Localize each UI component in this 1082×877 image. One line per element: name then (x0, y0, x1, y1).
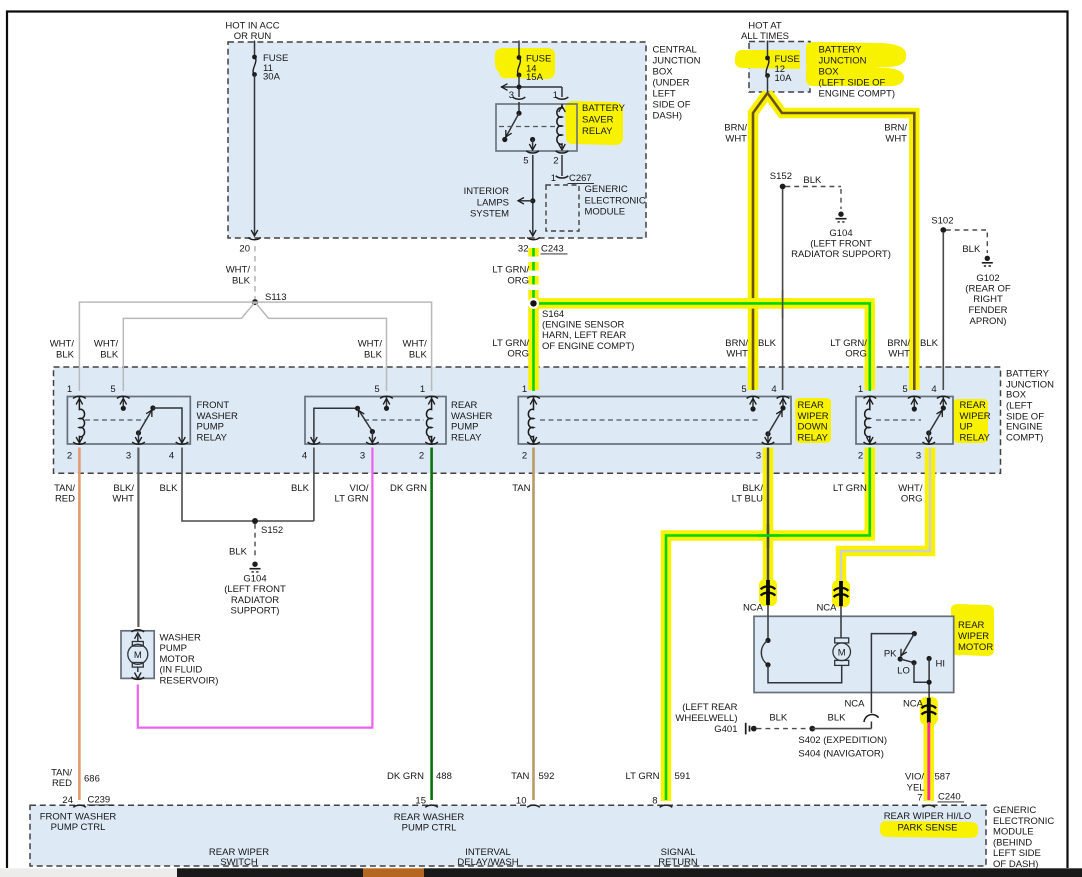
svg-text:HI: HI (936, 659, 946, 670)
svg-text:BLK: BLK (229, 547, 248, 558)
svg-text:RELAY: RELAY (451, 432, 482, 443)
fuse F11 30A (252, 55, 257, 77)
svg-text:S152: S152 (770, 171, 792, 182)
svg-text:(IN FLUID: (IN FLUID (160, 665, 203, 676)
svg-text:(ENGINE SENSOR: (ENGINE SENSOR (542, 320, 624, 331)
svg-text:5: 5 (110, 384, 115, 395)
highlighter blob over REAR WIPER MOTOR label (951, 604, 994, 656)
svg-text:TAN: TAN (512, 483, 530, 494)
svg-text:BATTERY: BATTERY (1006, 369, 1050, 380)
svg-text:REAR WASHER: REAR WASHER (394, 812, 465, 823)
svg-text:MODULE: MODULE (993, 827, 1034, 838)
svg-text:(REAR OF: (REAR OF (965, 284, 1011, 295)
wire: fuse 12 lead to split (767, 76, 769, 94)
svg-text:RADIATOR SUPPORT): RADIATOR SUPPORT) (791, 249, 891, 260)
svg-text:BLK/: BLK/ (742, 483, 763, 494)
svg-text:C239: C239 (88, 795, 111, 806)
svg-text:(LEFT REAR: (LEFT REAR (682, 702, 737, 713)
svg-text:OF ENGINE COMPT): OF ENGINE COMPT) (542, 341, 634, 352)
svg-text:RETURN: RETURN (658, 857, 698, 868)
svg-text:NCA: NCA (743, 603, 764, 614)
svg-text:DASH): DASH) (653, 111, 683, 122)
svg-text:WHT/: WHT/ (403, 338, 428, 349)
BRN/WHT wire right branch to up relay pin 5 (768, 93, 915, 390)
generic electronic module box (dashed, blue) (30, 805, 986, 866)
bottom taskbar strip black right (424, 868, 1082, 877)
svg-text:PK: PK (884, 649, 897, 660)
svg-text:WHT: WHT (725, 134, 747, 145)
svg-text:5: 5 (523, 156, 528, 167)
svg-text:(LEFT SIDE OF: (LEFT SIDE OF (819, 78, 886, 89)
svg-text:BLK: BLK (409, 350, 428, 361)
splice S113 (252, 299, 258, 305)
svg-text:PUMP CTRL: PUMP CTRL (51, 822, 106, 833)
yellow highlight band on LT GRN wire (up relay pin 2 to GEM pin 8) (666, 448, 870, 802)
svg-text:FRONT: FRONT (197, 400, 230, 411)
washer pump motor top cup and arrows (132, 630, 145, 680)
svg-text:G401: G401 (714, 724, 737, 735)
svg-text:SIDE OF: SIDE OF (653, 100, 691, 111)
LT GRN/ORG wire S164 down to down relay pin 1 (532, 299, 535, 391)
BLK dashed wire S152 to ground G104 (786, 187, 842, 210)
BRN/WHT wire left branch to down relay pin 5 (753, 93, 768, 390)
label WASHER PUMP MOTOR (IN FLUID RESERVOIR) (160, 632, 219, 686)
battery junction box relay row (dashed, blue) (54, 367, 1001, 473)
rear washer pump relay switch and pin 4 leg (311, 406, 376, 443)
bottom circuit labels TAN/RED 686 pin 24 C239 (51, 768, 113, 806)
rear wiper motor symbol M (833, 616, 851, 665)
wire: HOT AT ALL TIMES feed into fuse 14 (518, 41, 520, 58)
bottom circuit labels DK GRN 488 pin 15 (387, 771, 452, 806)
svg-text:592: 592 (539, 771, 555, 782)
svg-text:HOT AT: HOT AT (748, 21, 782, 32)
svg-text:FRONT WASHER: FRONT WASHER (40, 812, 117, 823)
rear wiper down relay connector cups (527, 396, 789, 444)
label S164 (ENGINE SENSOR HARN, LEFT REAR OF ENGINE COMPT) (542, 309, 634, 352)
svg-text:INTERVAL: INTERVAL (465, 847, 511, 858)
svg-text:WHEELWELL): WHEELWELL) (675, 713, 737, 724)
rear wiper down relay pin labels (522, 384, 777, 462)
label REAR WIPER UP RELAY (960, 400, 991, 443)
yellow highlight band on BRN/WHT wire right branch (fuse12 to rear wiper up relay pin 5) (768, 93, 915, 390)
BSR coil (pins 1-2) (557, 104, 562, 148)
rear washer pump relay box (305, 397, 446, 445)
highlighter blob over FUSE 12 / BATTERY JUNCTION BOX label (735, 50, 800, 69)
svg-text:3: 3 (916, 451, 921, 462)
connector cup BSR pin 2 (556, 151, 569, 153)
svg-text:LT GRN/: LT GRN/ (830, 338, 867, 349)
svg-text:GENERIC: GENERIC (993, 805, 1036, 816)
svg-text:24: 24 (62, 795, 73, 806)
rear wiper motor internals: PK LO HI selector (871, 631, 931, 693)
svg-text:JUNCTION: JUNCTION (819, 56, 867, 67)
svg-text:INTERIOR: INTERIOR (464, 186, 510, 197)
svg-text:LEFT: LEFT (653, 88, 676, 99)
fuse F14 15A (517, 55, 522, 77)
svg-text:WIPER: WIPER (958, 631, 989, 642)
front washer pump relay switch (135, 405, 185, 443)
svg-text:CENTRAL: CENTRAL (653, 44, 697, 55)
svg-text:VIO/: VIO/ (905, 772, 924, 783)
svg-text:WASHER: WASHER (160, 632, 201, 643)
BLK wire S152 to down relay pin 4 (782, 189, 784, 390)
svg-text:LT GRN/: LT GRN/ (492, 338, 529, 349)
svg-text:PUMP CTRL: PUMP CTRL (402, 823, 457, 834)
BLK/WHT wire front relay pin 3 to washer pump motor (137, 448, 139, 628)
svg-text:C243: C243 (541, 244, 564, 255)
front washer pump relay box (67, 397, 190, 445)
svg-text:488: 488 (436, 771, 452, 782)
svg-text:2: 2 (419, 451, 424, 462)
svg-text:591: 591 (675, 771, 691, 782)
svg-text:S102: S102 (931, 216, 953, 227)
label BATTERY SAVER RELAY (582, 103, 626, 137)
svg-text:RELAY: RELAY (960, 432, 991, 443)
svg-text:MODULE: MODULE (585, 207, 626, 218)
svg-text:LO: LO (897, 666, 910, 677)
label GENERIC ELECTRONIC MODULE (upper) (585, 184, 646, 218)
right NCA inline connector (922, 693, 937, 724)
svg-text:WHT: WHT (112, 494, 134, 505)
svg-text:S152: S152 (261, 525, 283, 536)
rear wiper down relay switch (765, 409, 785, 443)
label REAR WIPER DOWN RELAY (798, 400, 829, 443)
wire tap to interior lamps system (518, 200, 533, 202)
label GENERIC ELECTRONIC MODULE (BEHIND LEFT SIDE OF DASH) (993, 805, 1054, 870)
VIO/YEL wire circuit 587 to GEM pin 7 (927, 722, 930, 800)
svg-text:8: 8 (652, 796, 657, 807)
svg-text:BOX: BOX (653, 66, 674, 77)
svg-text:ENGINE: ENGINE (1006, 422, 1042, 433)
yellow highlight band on VIO/YEL wire (motor to GEM pin 7) (924, 701, 935, 801)
BLK wire S402 to park sense connector (812, 728, 871, 730)
label INTERIOR LAMPS SYSTEM (464, 186, 510, 220)
front washer pump relay dashed centerline (85, 419, 146, 421)
generic electronic module small box (inside CJB, dashed) (546, 185, 579, 231)
BLK dashed wire S102 to ground G102 (946, 230, 987, 253)
svg-text:2: 2 (858, 451, 863, 462)
svg-text:BRN/: BRN/ (724, 123, 747, 134)
svg-text:M: M (838, 647, 846, 658)
svg-text:S113: S113 (265, 292, 286, 303)
BLK wire S102 to up relay pin 4 (942, 233, 944, 390)
middle NCA inline connector (834, 581, 849, 616)
battery saver relay pin labels 3 1 5 2 (509, 90, 559, 167)
svg-text:4: 4 (302, 451, 307, 462)
svg-text:SIGNAL: SIGNAL (661, 847, 696, 858)
yellow highlight band on LT GRN/ORG wire (S164 to relay pins 1) (529, 299, 875, 390)
highlighter blob over REAR WIPER DOWN RELAY label (795, 398, 831, 443)
svg-text:15: 15 (415, 796, 426, 807)
highlighter blob over REAR WIPER UP RELAY label (953, 399, 988, 443)
svg-text:BATTERY: BATTERY (819, 45, 863, 56)
highlighter blob over FUSE 14 label (495, 48, 555, 79)
WHT/BLK wire S113 to rear washer relay pin 1 (255, 302, 432, 391)
LT GRN/ORG wire S164 across to up relay pin 1 (534, 303, 870, 391)
BLK/LT BLU wire down relay pin 3 to rear wiper motor NCA (767, 448, 769, 582)
svg-text:FENDER: FENDER (968, 305, 1007, 316)
bottom circuit labels TAN 592 pin 10 (511, 771, 554, 806)
svg-text:LEFT SIDE: LEFT SIDE (993, 848, 1041, 859)
svg-text:4: 4 (169, 451, 174, 462)
svg-text:BLK: BLK (364, 350, 383, 361)
svg-text:NCA: NCA (903, 698, 924, 709)
svg-text:DOWN: DOWN (798, 422, 828, 433)
svg-text:BOX: BOX (1006, 390, 1027, 401)
label G104 (LEFT FRONT RADIATOR SUPPORT) lower (224, 574, 286, 617)
DK GRN wire circuit 488 rear washer relay pin 2 to GEM pin 15 (430, 448, 433, 801)
WHT/BLK dashed wire CJB pin 20 to splice S113 (254, 246, 256, 299)
label G104 (LEFT FRONT RADIATOR SUPPORT) upper (791, 228, 891, 260)
svg-text:ENGINE COMPT): ENGINE COMPT) (819, 89, 896, 100)
yellow highlight blob on right NCA inline connector (920, 697, 938, 725)
rear wiper up relay pin 4 stub (940, 397, 947, 411)
GEM pin function labels row 1 (40, 811, 972, 833)
svg-text:(LEFT FRONT: (LEFT FRONT (224, 584, 286, 595)
svg-text:ELECTRONIC: ELECTRONIC (585, 195, 646, 206)
svg-text:BLK: BLK (232, 276, 251, 287)
svg-text:1: 1 (551, 173, 556, 184)
svg-text:15A: 15A (526, 72, 544, 83)
svg-text:NCA: NCA (844, 698, 865, 709)
svg-text:APRON): APRON) (970, 316, 1007, 327)
svg-text:ORG: ORG (845, 349, 867, 360)
svg-text:S164: S164 (542, 309, 564, 320)
BSR switch fixed contact to pin 5 (530, 137, 535, 142)
svg-text:30A: 30A (263, 72, 281, 83)
svg-text:COMPT): COMPT) (1006, 433, 1043, 444)
svg-text:NCA: NCA (816, 603, 837, 614)
svg-text:OR RUN: OR RUN (234, 31, 272, 42)
svg-text:TAN/: TAN/ (51, 768, 72, 779)
rear wiper down relay internals: coil pins 1-2 (528, 397, 536, 445)
GEM pin function labels row 2 (209, 847, 698, 868)
bottom circuit labels VIO/YEL 587 pin 7 C240 (905, 772, 964, 804)
svg-text:7: 7 (917, 793, 922, 804)
TAN wire circuit 592 down relay pin 2 to GEM pin 10 (532, 448, 535, 801)
svg-text:DK GRN: DK GRN (387, 771, 424, 782)
wire crossing patch: BLK wire over green horizontal at x782.6 (774, 298, 792, 309)
svg-text:S404 (NAVIGATOR): S404 (NAVIGATOR) (798, 748, 884, 759)
rear wiper up relay pin labels (858, 384, 937, 462)
svg-text:LT GRN/: LT GRN/ (492, 265, 529, 276)
svg-text:RELAY: RELAY (582, 126, 613, 137)
wire crossing patch: BLK/LT BLU core through green band at y535.5 (767, 524, 769, 548)
svg-text:WIPER: WIPER (798, 411, 829, 422)
rear washer pump relay pin 5 stub (383, 397, 390, 411)
svg-text:REAR: REAR (958, 620, 985, 631)
front washer pump relay internals: coil pins 1-2 (76, 397, 84, 445)
svg-text:BLK: BLK (920, 338, 939, 349)
splice S152 (lower) (252, 518, 258, 524)
svg-text:WHT: WHT (726, 349, 748, 360)
svg-text:LT GRN: LT GRN (626, 771, 660, 782)
svg-text:RADIATOR: RADIATOR (231, 595, 279, 606)
svg-text:2: 2 (553, 156, 558, 167)
svg-text:ORG: ORG (507, 276, 529, 287)
svg-text:32: 32 (518, 244, 529, 255)
fuse F12 10A (765, 56, 770, 78)
svg-text:HOT IN ACC: HOT IN ACC (225, 21, 279, 32)
ground G102 (rear of right fender apron) (982, 256, 993, 266)
svg-text:PUMP: PUMP (451, 422, 478, 433)
svg-text:TAN: TAN (511, 771, 529, 782)
ground G401 (left rear wheelwell) (746, 723, 757, 735)
svg-text:C240: C240 (938, 792, 961, 803)
rear wiper up relay internals: coil pins 1-2 (865, 397, 873, 445)
left NCA inline connector (761, 580, 776, 616)
svg-text:RELAY: RELAY (798, 432, 829, 443)
svg-text:LT BLU: LT BLU (732, 494, 763, 505)
label REAR WASHER PUMP RELAY (451, 400, 492, 443)
svg-text:LAMPS: LAMPS (477, 197, 509, 208)
labels above rear wiper up relay LT GRN/ORG BRN/WHT BLK (830, 338, 938, 360)
central junction box (dashed, blue) (228, 42, 646, 238)
BSR pin 3 lead and switch common dot (518, 102, 520, 113)
svg-text:WHT: WHT (888, 349, 910, 360)
svg-text:BLK: BLK (828, 712, 847, 723)
svg-text:BLK: BLK (758, 338, 777, 349)
svg-text:UP: UP (960, 422, 973, 433)
rear wiper motor internals: park switch (761, 616, 841, 683)
svg-text:BLK: BLK (100, 350, 119, 361)
splice S164 dot with white ring (528, 298, 539, 309)
BLK dashed wire S152 to ground G104 (lower) (254, 524, 256, 559)
wire: fuse 14 to battery saver relay feed rail (501, 75, 562, 97)
label REAR WIPER MOTOR (958, 620, 993, 653)
svg-text:REAR: REAR (798, 400, 825, 411)
svg-text:3: 3 (509, 90, 514, 101)
VIO/LT GRN wire washer motor to rear washer relay pin 3 (138, 448, 373, 728)
svg-text:REAR WIPER HI/LO: REAR WIPER HI/LO (884, 811, 972, 822)
svg-text:RIGHT: RIGHT (973, 294, 1003, 305)
rear wiper down relay pin 5 stub (750, 397, 757, 412)
bottom taskbar strip orange segment (363, 868, 424, 877)
BLK wire loop relay pins 4 to splice S152 (lower) (182, 448, 314, 522)
svg-text:PUMP: PUMP (197, 422, 224, 433)
BSR switch arm (506, 113, 519, 137)
rear wiper down relay box (518, 397, 791, 445)
svg-text:M: M (134, 650, 142, 661)
svg-text:REAR: REAR (960, 400, 987, 411)
svg-text:WHT: WHT (885, 134, 907, 145)
svg-text:1: 1 (858, 384, 863, 395)
svg-text:SWITCH: SWITCH (220, 857, 258, 868)
svg-text:S402 (EXPEDITION): S402 (EXPEDITION) (798, 735, 887, 746)
svg-text:REAR: REAR (451, 400, 478, 411)
svg-text:SAVER: SAVER (582, 115, 614, 126)
svg-text:BLK: BLK (962, 244, 981, 255)
svg-text:RED: RED (52, 778, 72, 789)
svg-text:BLK/: BLK/ (113, 483, 134, 494)
svg-text:(LEFT: (LEFT (1006, 401, 1033, 412)
svg-text:MOTOR: MOTOR (958, 642, 993, 653)
svg-text:ORG: ORG (507, 349, 529, 360)
svg-text:5: 5 (902, 384, 907, 395)
svg-text:OF DASH): OF DASH) (993, 859, 1038, 870)
rear wiper up relay connector cups (864, 396, 950, 444)
svg-text:4: 4 (771, 384, 776, 395)
svg-text:REAR WIPER: REAR WIPER (209, 847, 269, 858)
svg-text:G104: G104 (243, 574, 266, 585)
rear wiper up relay switch (926, 409, 946, 443)
label CENTRAL JUNCTION BOX (UNDER LEFT SIDE OF DASH) (653, 44, 701, 121)
washer pump motor symbol M (128, 642, 148, 668)
svg-text:PUMP: PUMP (160, 643, 187, 654)
arrow pointing left on feed rail (502, 84, 508, 91)
WHT/BLK wire S113 to front relay pin 1 (79, 302, 255, 391)
svg-text:ELECTRONIC: ELECTRONIC (993, 816, 1054, 827)
wire: BSR pin 2 to connector C267 (561, 155, 563, 176)
svg-text:BRN/: BRN/ (887, 338, 910, 349)
label BATTERY JUNCTION BOX (LEFT SIDE OF ENGINE COMPT) top right (819, 45, 896, 100)
connector cup C267 pin 1 (556, 176, 569, 178)
svg-text:LT GRN: LT GRN (833, 483, 867, 494)
svg-text:WHT/: WHT/ (898, 483, 923, 494)
svg-text:BLK: BLK (160, 483, 179, 494)
bottom taskbar strip black left (177, 868, 363, 877)
connector cup BSR pin 3 (513, 97, 526, 99)
svg-text:2: 2 (522, 451, 527, 462)
rear wiper up relay pin 5 stub (911, 397, 918, 412)
svg-text:(BEHIND: (BEHIND (993, 837, 1032, 848)
junction dot at fuse 14 rail (517, 85, 522, 90)
washer pump motor box (121, 631, 154, 679)
wire labels below relay row (54, 483, 923, 505)
wire: HOT IN ACC feed into fuse 11 (254, 41, 256, 58)
LT GRN/ORG dashed wire C243 to S164 (532, 248, 535, 299)
arrow into pin 20 (251, 230, 258, 236)
svg-text:VIO/: VIO/ (349, 483, 368, 494)
svg-text:4: 4 (931, 384, 936, 395)
svg-text:TAN/: TAN/ (54, 483, 75, 494)
battery saver relay box (496, 104, 577, 151)
labels NCA at rear wiper motor connectors (743, 603, 924, 710)
svg-text:BLK: BLK (803, 175, 822, 186)
splice S102 (940, 227, 946, 233)
svg-text:WASHER: WASHER (197, 411, 238, 422)
svg-text:RESERVOIR): RESERVOIR) (160, 676, 219, 687)
svg-text:2: 2 (67, 451, 72, 462)
svg-text:3: 3 (126, 451, 131, 462)
svg-text:JUNCTION: JUNCTION (653, 55, 701, 66)
svg-text:RELAY: RELAY (197, 432, 228, 443)
ground G104 lower (left front radiator support) (250, 562, 261, 572)
svg-text:5: 5 (741, 384, 746, 395)
TAN/RED wire circuit 686 front relay pin 2 to GEM pin 24 (78, 448, 81, 801)
rear wiper down relay pin 4 stub (780, 397, 787, 411)
rear washer pump relay internals: coil pins 1-2 (426, 397, 434, 445)
splice S402/S404 (809, 726, 815, 732)
svg-text:1: 1 (420, 384, 425, 395)
svg-text:WHT/: WHT/ (50, 338, 75, 349)
label (LEFT REAR WHEELWELL) G401 (675, 702, 737, 735)
rear washer pump relay pin labels (302, 384, 425, 462)
rear washer pump relay dashed centerline (364, 419, 424, 421)
svg-text:SYSTEM: SYSTEM (470, 209, 509, 220)
bottom circuit labels LT GRN 591 pin 8 (626, 771, 691, 806)
labels above rear wiper down relay BRN/WHT BLK (725, 338, 776, 360)
highlighter blob over BATTERY SAVER RELAY label (565, 101, 623, 145)
yellow highlight blob on middle NCA inline connector (832, 580, 850, 607)
svg-text:SUPPORT): SUPPORT) (231, 606, 280, 617)
bottom taskbar strip light segment (0, 868, 177, 877)
svg-text:686: 686 (84, 774, 100, 785)
svg-text:1: 1 (522, 384, 527, 395)
svg-text:20: 20 (239, 244, 250, 255)
svg-text:(LEFT FRONT: (LEFT FRONT (810, 239, 872, 250)
highlighter blob over REAR WIPER HI/LO PARK SENSE label (880, 821, 978, 838)
